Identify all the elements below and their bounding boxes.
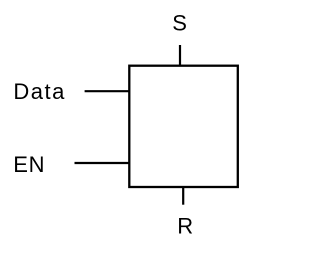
block U1: [129, 66, 238, 187]
wire R: [182, 187, 184, 205]
svg-text:S: S: [172, 11, 187, 36]
wire Data: [85, 90, 130, 92]
svg-text:Data: Data: [13, 79, 65, 104]
svg-text:EN: EN: [13, 152, 45, 177]
wire S: [179, 45, 181, 66]
svg-text:R: R: [177, 213, 193, 238]
wire EN: [75, 162, 130, 164]
